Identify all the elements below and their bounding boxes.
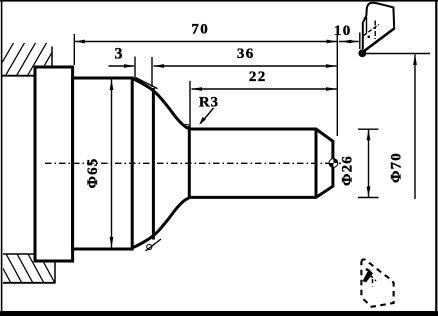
fillet marker circle bottom <box>147 244 152 249</box>
part: intermediate face line <box>152 88 155 240</box>
svg-text:Φ26: Φ26 <box>340 155 356 186</box>
part: taper top curve <box>133 79 191 129</box>
part: phi65 cylinder section <box>73 78 133 249</box>
svg-text:3: 3 <box>115 45 123 62</box>
dimension 22 <box>190 69 337 128</box>
svg-text:10: 10 <box>334 23 352 39</box>
finish point marker at part face (quadrant circle) <box>329 159 338 168</box>
blank chamfer thin line top <box>136 78 158 89</box>
dimension 10 <box>334 23 360 136</box>
part: gripped stock section <box>35 67 73 261</box>
dimension 3 <box>109 45 136 78</box>
svg-text:R3: R3 <box>199 94 219 110</box>
chuck jaw top borders <box>2 47 52 76</box>
dimension 36 <box>152 46 337 87</box>
blank chamfer thin line bottom <box>146 239 162 251</box>
chuck jaw top hatching <box>0 42 69 80</box>
dimension phi65 <box>85 80 113 248</box>
part: chamfer face <box>315 129 318 197</box>
dimension phi70 <box>388 55 416 200</box>
svg-text:Φ70: Φ70 <box>388 152 404 183</box>
cutting tool (dashed, bottom right) <box>361 259 393 306</box>
svg-text:70: 70 <box>191 22 209 38</box>
part: taper bottom curve <box>133 197 191 247</box>
dimension phi26 <box>340 129 379 197</box>
tool tip dot <box>358 49 366 57</box>
fillet marker circle top <box>185 124 189 128</box>
centerline (part axis, dash-dot) <box>45 162 341 164</box>
R3 label and leader <box>199 94 219 124</box>
tool reference line <box>364 53 430 55</box>
svg-text:22: 22 <box>249 69 267 85</box>
part: shaft start face <box>188 129 191 197</box>
chuck jaw bottom hatching <box>0 252 67 285</box>
dimension 70 <box>74 22 337 65</box>
cutting tool (solid, top right) <box>363 3 394 52</box>
chuck jaw bottom borders <box>3 254 56 283</box>
part: shaft outline with chamfered end <box>188 129 333 197</box>
svg-text:Φ65: Φ65 <box>85 157 101 188</box>
svg-text:36: 36 <box>237 46 255 62</box>
